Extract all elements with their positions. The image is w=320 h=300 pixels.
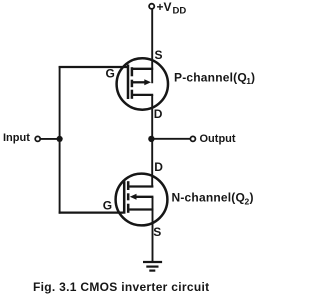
transistor Q2 source contact line [129, 208, 153, 210]
output terminal [190, 136, 195, 141]
svg-text:Fig. 3.1 CMOS inverter circuit: Fig. 3.1 CMOS inverter circuit [33, 280, 209, 294]
svg-text:DD: DD [173, 6, 187, 17]
wire input bus vertical [59, 66, 61, 214]
ground [143, 262, 162, 271]
transistor Q1 (P-channel MOSFET) body circle [117, 58, 168, 109]
transistor Q2 (N-channel MOSFET) body circle [116, 174, 168, 226]
transistor Q1 gate bar [127, 65, 130, 100]
svg-text:P-channel(Q: P-channel(Q [174, 70, 247, 84]
node output junction dot [148, 136, 154, 142]
transistor Q2 gate bar [123, 181, 126, 214]
input terminal [35, 136, 40, 141]
wire input bus to Q1 gate [59, 66, 127, 68]
transistor Q2 drain contact line [129, 185, 153, 187]
svg-text:D: D [154, 107, 163, 121]
transistor Q2 channel dash bottom [127, 204, 130, 213]
transistor Q2 channel dash middle [127, 193, 130, 200]
svg-text:D: D [154, 160, 163, 174]
transistor Q1 source contact line [131, 68, 153, 70]
transistor Q1 channel dash middle [131, 80, 134, 88]
wire Q2 body to source [152, 197, 154, 210]
svg-text:S: S [155, 48, 163, 62]
svg-text:): ) [250, 191, 254, 205]
+VDD label [157, 0, 187, 17]
wire Q2 source to ground [152, 210, 154, 262]
label N-channel(Q2) [172, 191, 254, 207]
transistor Q1 body contact line with arrow [133, 79, 152, 85]
svg-text:Output: Output [200, 133, 236, 145]
transistor Q1 channel dash top [131, 67, 134, 76]
transistor Q1 drain contact line [131, 94, 153, 96]
svg-text:G: G [106, 67, 115, 81]
wire VDD to Q1 source and body [151, 9, 153, 83]
wire output node to Q2 drain [151, 139, 153, 187]
svg-text:S: S [153, 225, 161, 239]
label P-channel(Q1) [174, 70, 255, 86]
svg-text:Input: Input [3, 132, 30, 144]
svg-text:N-channel(Q: N-channel(Q [172, 191, 246, 205]
wire input bus to Q2 gate [59, 212, 124, 214]
svg-text:G: G [103, 198, 112, 212]
wire Q1 drain to output node [151, 95, 153, 139]
transistor Q2 channel dash top [127, 181, 130, 190]
transistor Q2 body contact line with arrow [130, 194, 154, 200]
+VDD terminal [149, 4, 154, 9]
svg-text:+V: +V [157, 0, 172, 14]
svg-text:): ) [251, 70, 255, 84]
wire output node to output terminal [152, 138, 190, 140]
wire input terminal to input node [40, 138, 59, 140]
transistor Q1 channel dash bottom [131, 90, 134, 99]
node input junction dot [57, 136, 63, 142]
